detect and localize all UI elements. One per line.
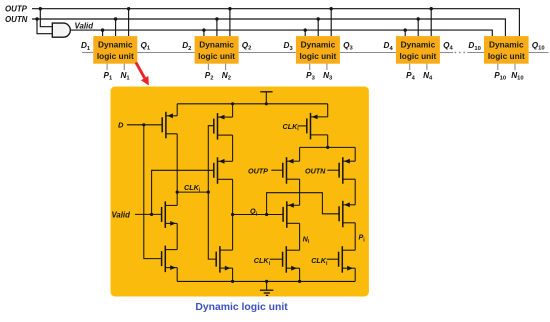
wire OUTN gate lead	[327, 169, 339, 171]
svg-text:Dynamic logic unit: Dynamic logic unit	[195, 302, 288, 313]
wire M6 source to ground	[232, 268, 234, 281]
dynamic logic unit block U1	[93, 36, 137, 64]
wire D gate lead	[127, 124, 162, 126]
wire M9 drain to M11	[354, 179, 356, 205]
svg-text:P4: P4	[406, 71, 415, 82]
junction Valid node	[150, 213, 153, 216]
svg-text:N2: N2	[222, 71, 231, 82]
wire P4 stub	[409, 64, 411, 70]
wire Pi riser	[354, 223, 356, 250]
svg-text:Q2: Q2	[242, 41, 252, 52]
junction OUTN tap 4	[417, 17, 420, 20]
wire riser OUTN to unit 1	[115, 19, 117, 36]
svg-text:D10: D10	[468, 41, 480, 52]
wire D/Q chain line	[82, 52, 93, 54]
wire riser OUTN to unit 2	[216, 19, 218, 36]
junction OUTN tap 1	[114, 17, 117, 20]
wire riser OUTN to unit 3	[317, 19, 319, 36]
transistor M2 (NMOS, gate Valid)	[161, 207, 163, 222]
transistor M6 (NMOS, gate CLKi)	[215, 252, 217, 267]
svg-text:D3: D3	[284, 41, 294, 52]
VDD supply symbol	[260, 91, 272, 93]
svg-text:Q10: Q10	[532, 41, 545, 52]
transistor M3 (NMOS, gate D)	[161, 251, 163, 266]
transistor M5 (PMOS, gate Valid)	[213, 163, 215, 178]
wire riser Valid to unit 3	[304, 30, 306, 36]
wire N2 stub	[225, 64, 227, 70]
dynamic logic unit block U2	[195, 36, 239, 64]
junction on OUTN bus	[35, 17, 38, 20]
junction Valid tap 1	[101, 28, 104, 31]
dynamic logic unit block U3	[296, 36, 340, 64]
wire N1 stub	[123, 64, 125, 70]
wire riser OUTP to unit 3	[330, 9, 332, 36]
wire M1 source to VDD	[176, 104, 178, 116]
wire riser OUTP to unit 1	[128, 9, 130, 36]
junction M4 source on VDD rail	[231, 102, 234, 105]
wire N10 stub	[514, 64, 516, 70]
transistor M9 (PMOS, gate OUTN)	[338, 163, 340, 178]
junction Qi cross	[265, 213, 268, 216]
junction OUTP tap 3	[330, 7, 333, 10]
transistor M8 (PMOS, gate OUTP)	[282, 163, 284, 178]
callout arrow (red)	[136, 62, 145, 78]
svg-text:Dynamic: Dynamic	[489, 40, 524, 50]
wire M7 gate lead	[298, 125, 307, 127]
wire M3 source to ground	[176, 268, 178, 282]
svg-text:Dynamic: Dynamic	[98, 40, 133, 50]
wire M1 drain riser	[176, 134, 178, 206]
svg-text:logic unit: logic unit	[198, 51, 235, 61]
svg-text:D4: D4	[384, 41, 394, 52]
wire P10 stub	[497, 64, 499, 70]
wire P2 stub	[207, 64, 209, 70]
svg-text:D: D	[118, 121, 124, 130]
wire N4 stub	[426, 64, 428, 70]
junction D node	[142, 123, 145, 126]
wire M4 source to VDD rail	[232, 104, 234, 117]
svg-text:N1: N1	[121, 71, 131, 82]
wire M8 source riser	[299, 147, 301, 161]
wire P1 stub	[106, 64, 108, 70]
wire riser OUTP to unit 2	[229, 9, 231, 36]
svg-text:logic unit: logic unit	[299, 51, 336, 61]
wire latch top	[300, 146, 356, 148]
svg-text:P10: P10	[494, 71, 506, 82]
wire D riser to M3 gate	[144, 125, 162, 259]
svg-text:Dynamic: Dynamic	[301, 40, 336, 50]
wire M12 source to ground	[299, 268, 301, 281]
svg-text:logic unit: logic unit	[97, 51, 134, 61]
wire Valid gate lead	[135, 213, 162, 215]
wire Qi horizontal	[233, 214, 284, 216]
wire AND input from OUTN	[37, 19, 52, 34]
and-gate U1	[52, 23, 70, 37]
wire M9 source riser	[354, 147, 356, 161]
svg-text:N4: N4	[423, 71, 433, 82]
transistor M10 (gate Qi)	[282, 207, 284, 222]
wire Valid riser to M5 gate	[152, 170, 214, 214]
ground rail	[177, 280, 355, 282]
wire M13 source to ground	[354, 268, 356, 281]
junction CLK wire left	[176, 191, 179, 194]
junction OUTN tap 2	[215, 17, 218, 20]
svg-text:OUTN: OUTN	[5, 15, 28, 24]
svg-text:N3: N3	[323, 71, 333, 82]
wire M2 source to M3 drain	[176, 223, 178, 249]
junction Q riser	[231, 213, 234, 216]
junction Valid tap 4	[404, 28, 407, 31]
transistor M7 (PMOS, gate CLKi)	[306, 118, 308, 133]
transistor M13 (NMOS, gate CLKi)	[338, 252, 340, 267]
svg-text:logic unit: logic unit	[399, 51, 436, 61]
junction ground stub	[265, 280, 268, 283]
junction Valid tap 2	[202, 28, 205, 31]
wire P3 stub	[309, 64, 311, 70]
wire riser Valid to unit 2	[203, 30, 205, 36]
wire AND input from OUTP	[40, 9, 52, 27]
junction OUTP tap 2	[228, 7, 231, 10]
ground symbol	[266, 281, 268, 290]
junction OUTP tap 1	[127, 7, 130, 10]
ellipsis dots on chain	[455, 52, 457, 54]
svg-text:P2: P2	[205, 71, 214, 82]
svg-text:P3: P3	[306, 71, 315, 82]
VDD rail	[177, 103, 328, 105]
svg-text:N10: N10	[511, 71, 523, 82]
junction VDD stub	[265, 102, 268, 105]
wire riser OUTP to unit 4	[430, 9, 432, 36]
wire M13 gate lead	[327, 258, 339, 260]
wire M7 source to VDD rail	[327, 104, 329, 117]
junction M12 source on ground rail	[298, 280, 301, 283]
svg-text:Q1: Q1	[141, 41, 151, 52]
transistor M12 (NMOS, gate CLKi)	[282, 252, 284, 267]
wire M12 gate lead	[270, 258, 283, 260]
wire CLKi horizontal	[177, 191, 208, 193]
dynamic logic unit block U10	[484, 36, 529, 64]
svg-text:Dynamic: Dynamic	[401, 40, 436, 50]
wire N3 stub	[326, 64, 328, 70]
junction M6 source on ground rail	[231, 280, 234, 283]
wire Valid bus	[71, 30, 493, 36]
wire riser Valid to unit 1	[102, 30, 104, 36]
wire riser OUTN to unit 4	[417, 19, 419, 36]
dynamic logic unit block U4	[396, 36, 440, 64]
transistor M4 (PMOS, gate CLKi)	[213, 119, 215, 134]
transistor M11 (gate Qi cross)	[338, 206, 340, 221]
svg-text:D1: D1	[81, 41, 91, 52]
svg-text:Q4: Q4	[443, 41, 453, 52]
svg-text:Dynamic: Dynamic	[199, 40, 234, 50]
transistor M1 (PMOS, gate D)	[161, 117, 163, 132]
wire M8 drain to M10	[299, 179, 301, 205]
svg-text:OUTN: OUTN	[305, 166, 326, 175]
svg-text:OUTP: OUTP	[5, 4, 28, 13]
wire OUTP bus	[32, 9, 519, 37]
wire M5 drain riser to Q	[232, 179, 234, 250]
wire M4 drain to M5 source	[232, 135, 234, 161]
detail box (dynamic logic unit internals)	[111, 87, 369, 297]
wire M7 drain to latch	[327, 135, 329, 148]
svg-text:logic unit: logic unit	[488, 51, 525, 61]
svg-text:Q3: Q3	[343, 41, 353, 52]
wire Ni riser	[299, 223, 301, 250]
wire riser Valid to unit 4	[404, 30, 406, 36]
junction Valid tap 3	[304, 28, 307, 31]
svg-text:P1: P1	[104, 71, 113, 82]
svg-text:D2: D2	[182, 41, 191, 52]
junction on OUTP bus	[39, 7, 42, 10]
wire OUTN bus	[32, 19, 505, 36]
svg-text:Valid: Valid	[112, 211, 131, 220]
junction OUTP tap 4	[430, 7, 433, 10]
svg-text:Valid: Valid	[75, 22, 94, 31]
svg-text:OUTP: OUTP	[248, 166, 268, 175]
wire CLK net vertical	[208, 126, 216, 259]
wire OUTP gate lead	[271, 169, 283, 171]
wire Qi cross-coupling to M11 gate	[267, 193, 340, 215]
junction OUTN tap 3	[317, 17, 320, 20]
junction CLKi net	[207, 191, 210, 194]
junction latch tail	[326, 146, 329, 149]
